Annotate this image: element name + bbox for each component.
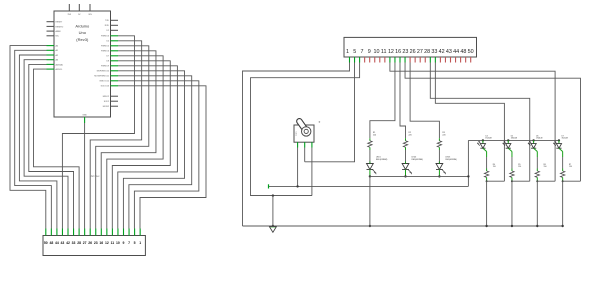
wire R1 to LED1	[369, 150, 371, 163]
pin stub 13 of J2	[409, 57, 411, 63]
resistor R4	[484, 171, 488, 177]
wire D4 to J1	[90, 41, 141, 229]
pin stub 12 of J2	[404, 57, 406, 63]
svg-text:PWM D6: PWM D6	[101, 51, 110, 53]
pin RV1 2	[304, 142, 306, 147]
junction D7 on top rail	[558, 139, 560, 141]
wire cells top rail	[468, 139, 559, 141]
svg-text:1N4148: 1N4148	[561, 138, 567, 140]
pin RV1 1	[297, 142, 299, 147]
wire pot pin3 to loop	[251, 195, 312, 197]
wire R7 to feed	[563, 180, 581, 182]
node rail 186 end tick	[268, 184, 270, 188]
junction rail drop on bus	[369, 225, 371, 227]
pin stub 7 of J2	[379, 57, 381, 63]
resistor R3	[437, 141, 441, 148]
connector J1 body	[43, 236, 145, 256]
IC U1 Arduino Uno (Rev3) body	[54, 11, 111, 117]
wire R6 to feed	[537, 180, 555, 182]
junction D5 on top rail	[507, 139, 509, 141]
wire LED3 leads	[438, 162, 440, 164]
node rail 186 wire	[269, 185, 469, 187]
junction R5 node	[511, 180, 513, 182]
svg-text:1N4148: 1N4148	[536, 138, 542, 140]
wire LED2 leads	[405, 162, 407, 164]
wire R4 to feed	[487, 180, 505, 182]
svg-text:16: 16	[395, 49, 401, 55]
junction LED2 on rail	[404, 175, 406, 177]
pin 11 of J1	[111, 229, 113, 236]
wire A3 to J1	[24, 60, 68, 229]
wire D5 to J1	[96, 46, 149, 229]
pin D4	[111, 40, 119, 42]
svg-text:Mult Stec: Mult Stec	[90, 175, 100, 178]
svg-text:50: 50	[44, 241, 48, 245]
svg-text:12: 12	[105, 241, 109, 245]
pin MISO2	[111, 95, 119, 97]
pin 44 of J1	[56, 229, 58, 236]
wire D6 anode stub	[533, 140, 535, 143]
pin 7 of J1	[128, 229, 130, 236]
pin 28 of J1	[78, 229, 80, 236]
pin 48 of J1	[50, 229, 52, 236]
svg-text:5: 5	[353, 49, 356, 55]
svg-text:48: 48	[49, 241, 53, 245]
pin RXD	[111, 24, 119, 26]
junction cell4 on bus	[561, 225, 563, 227]
svg-text:RESET2: RESET2	[56, 26, 65, 28]
wire J2 pin44 to D4 cell	[435, 63, 504, 182]
pin stub 18 of J2	[434, 57, 436, 63]
pin stub 21 of J2	[450, 57, 452, 63]
svg-text:MISO2: MISO2	[103, 96, 110, 98]
pin stub 1 of J2	[349, 57, 351, 63]
svg-text:150: 150	[518, 166, 521, 168]
svg-text:SCK D13: SCK D13	[101, 86, 110, 88]
wire R5 to feed	[512, 180, 530, 182]
pin 26 of J1	[89, 229, 91, 236]
pin RESET2	[47, 25, 55, 27]
svg-text:11: 11	[111, 241, 115, 245]
resistor R2	[403, 141, 407, 148]
pin 42 of J1	[67, 229, 69, 236]
junction ground on bus	[272, 225, 274, 227]
junction R7 node	[562, 180, 564, 182]
wire R7 to ground bus	[562, 181, 564, 226]
pin D8	[111, 60, 119, 62]
resistor R3 leads	[438, 138, 440, 141]
ground symbol	[270, 226, 275, 228]
svg-text:12: 12	[388, 49, 394, 55]
pin SCK D13	[111, 85, 119, 87]
wire R3 to LED3	[438, 150, 440, 163]
resistor R1	[368, 141, 372, 148]
junction RV1 pin1 on rail 186	[296, 185, 298, 187]
pin 9 of J1	[123, 229, 125, 236]
wire ground drop	[272, 196, 274, 226]
pin stub 23 of J2	[460, 57, 462, 63]
svg-text:44: 44	[55, 241, 59, 245]
wire A4 to J1	[29, 64, 74, 228]
svg-text:1N4148: 1N4148	[485, 138, 491, 140]
wire D5 anode stub	[507, 140, 509, 143]
pin PWM D9	[111, 65, 119, 67]
svg-text:1: 1	[139, 241, 141, 245]
wire R4 to ground bus	[486, 181, 488, 226]
pin GND	[84, 117, 86, 123]
wire D12 to J1	[118, 81, 199, 229]
potentiometer RV1 shaft	[302, 127, 311, 136]
pin A1	[47, 49, 55, 51]
resistor R7	[560, 171, 564, 177]
pin 33 of J1	[73, 229, 75, 236]
pin A2	[47, 54, 55, 56]
svg-text:5: 5	[134, 241, 136, 245]
svg-text:33: 33	[72, 241, 76, 245]
pin stub 17 of J2	[429, 57, 431, 63]
pin MOSI/PWM D11	[111, 75, 119, 77]
pin 27 of J1	[84, 229, 86, 236]
wire R5 to ground bus	[511, 181, 513, 226]
pin A0	[47, 45, 55, 47]
pin RESET	[47, 21, 55, 23]
pin A4	[47, 63, 55, 65]
pin stub 24 of J2	[465, 57, 467, 63]
diode D5	[506, 144, 511, 149]
pin A3	[47, 59, 55, 61]
wire D8 to J1	[112, 61, 170, 229]
svg-text:N/C: N/C	[56, 36, 60, 38]
wire LED1 leads	[369, 162, 371, 164]
svg-text:RED(633NM): RED(633NM)	[412, 159, 424, 161]
svg-text:1N4148: 1N4148	[511, 138, 517, 140]
pin N/C	[47, 35, 55, 37]
svg-text:27: 27	[83, 241, 87, 245]
pin 5V	[78, 4, 80, 11]
wire ground bus	[243, 225, 563, 227]
svg-text:POT1: POT1	[296, 132, 298, 136]
svg-text:7: 7	[360, 49, 363, 55]
junction cell2 on bus	[511, 225, 513, 227]
wire R6 to ground bus	[536, 181, 538, 226]
pin stub 3 of J2	[359, 57, 361, 63]
junction R4 node	[486, 180, 488, 182]
svg-text:TXD: TXD	[105, 20, 110, 22]
wire D7 to J1	[107, 56, 163, 229]
junction ground tap	[272, 194, 274, 196]
pin AREF	[47, 30, 55, 32]
pin SCK2	[111, 100, 119, 102]
svg-text:9: 9	[123, 241, 125, 245]
wire J2 pin1 to ground bus	[243, 63, 350, 227]
pin stub 9 of J2	[389, 57, 391, 63]
pin 50 of J1	[45, 229, 47, 236]
wire J2 pin43 to D5 cell	[430, 63, 529, 182]
wire RV1 pin1 to node rail186	[297, 148, 299, 187]
wire J2 pin16 to R3 branch	[410, 63, 439, 139]
pin PWM D3	[111, 35, 119, 37]
wire A2 to J1	[19, 55, 57, 229]
svg-text:RXD: RXD	[105, 25, 110, 27]
wire D11 to J1	[118, 76, 192, 229]
pin SS/PWM D10	[111, 70, 119, 72]
svg-text:27: 27	[417, 49, 423, 55]
wire R4 bottom	[486, 177, 488, 181]
junction LED1 on rail	[369, 175, 371, 177]
svg-text:GND: GND	[82, 115, 87, 117]
svg-text:1: 1	[346, 49, 349, 55]
resistor R6	[535, 171, 539, 177]
pin stub 8 of J2	[384, 57, 386, 63]
wire D5 to R5	[508, 148, 512, 151]
wire J2 pin10 to R1 branch	[370, 63, 395, 139]
pin PWM D6	[111, 50, 119, 52]
svg-text:23: 23	[402, 49, 408, 55]
svg-text:42: 42	[439, 49, 445, 55]
pin 5 of J1	[134, 229, 136, 236]
svg-text:MOSI/PWM D11: MOSI/PWM D11	[94, 76, 110, 78]
connector J2 header body	[344, 37, 477, 57]
svg-text:220: 220	[409, 135, 412, 137]
LED LED3	[436, 164, 443, 170]
resistor R5	[510, 171, 514, 177]
junction R6 node	[536, 180, 538, 182]
junction D6 on top rail	[532, 139, 534, 141]
svg-text:VIN: VIN	[88, 14, 92, 16]
label RV1 marker	[319, 121, 321, 123]
diode D6	[531, 144, 536, 149]
svg-text:PWM D5: PWM D5	[101, 46, 110, 48]
wire RV1 pin2 stub	[304, 148, 306, 162]
svg-text:16: 16	[99, 241, 103, 245]
pin D2	[111, 29, 119, 31]
svg-text:10: 10	[116, 241, 120, 245]
svg-text:150: 150	[544, 166, 547, 168]
wire J2 pin11 to R2 branch	[400, 63, 406, 139]
junction cell3 on bus	[536, 225, 538, 227]
svg-text:MOSI2: MOSI2	[103, 106, 110, 108]
svg-text:10: 10	[373, 49, 379, 55]
pin stub 6 of J2	[374, 57, 376, 63]
pin PWM D5	[111, 45, 119, 47]
wire A1 to J1	[15, 50, 52, 228]
wire A5 to J1	[34, 69, 80, 228]
wire D7 anode stub	[558, 140, 560, 143]
svg-text:Uno: Uno	[79, 30, 87, 35]
svg-text:26: 26	[410, 49, 416, 55]
resistor R2 leads	[405, 138, 407, 141]
pin 23 of J1	[95, 229, 97, 236]
wire LED common rail	[370, 175, 469, 177]
svg-text:42: 42	[66, 241, 70, 245]
wire D4 anode stub	[482, 140, 484, 143]
LED LED2	[402, 164, 409, 170]
wire rail to ground bus drop	[369, 176, 371, 226]
svg-text:220: 220	[373, 135, 376, 137]
wire J2 pin7 to RV1 pin3	[251, 63, 360, 196]
junction D4 on top rail	[482, 139, 484, 141]
pin MISO D12	[111, 80, 119, 82]
pin TXD	[111, 19, 119, 21]
pin 3V3	[68, 4, 70, 11]
svg-text:28: 28	[424, 49, 430, 55]
wire J2 pin5 to RV1 wiper	[305, 63, 355, 162]
potentiometer RV1 lever	[296, 117, 309, 132]
diode D7	[556, 144, 561, 149]
pin stub 20 of J2	[444, 57, 446, 63]
pin stub 5 of J2	[369, 57, 371, 63]
wire R7 bottom	[562, 177, 564, 181]
junction cell1 on bus	[485, 225, 487, 227]
svg-text:7: 7	[128, 241, 130, 245]
svg-text:A4/SDA: A4/SDA	[56, 63, 64, 66]
svg-text:48: 48	[460, 49, 466, 55]
diode D4	[480, 144, 485, 149]
pin stub 10 of J2	[394, 57, 396, 63]
svg-text:44: 44	[453, 49, 459, 55]
wire D7 to R7	[559, 148, 563, 151]
svg-text:SS/PWM D10: SS/PWM D10	[97, 71, 110, 73]
junction rail176 on 468	[467, 175, 469, 177]
svg-text:SCK2: SCK2	[104, 101, 110, 103]
wire D6 to R6	[534, 148, 538, 151]
pin stub 11 of J2	[399, 57, 401, 63]
svg-text:MISO D12: MISO D12	[100, 81, 110, 83]
pin stub 14 of J2	[414, 57, 416, 63]
svg-text:23: 23	[94, 241, 98, 245]
svg-text:(Rev3): (Rev3)	[76, 37, 89, 42]
svg-text:43: 43	[446, 49, 452, 55]
wire vertical 468 linking rails	[467, 140, 469, 186]
pin D7	[111, 55, 119, 57]
pin VIN	[89, 4, 91, 11]
svg-text:RESET: RESET	[56, 22, 63, 24]
svg-text:11: 11	[381, 49, 387, 55]
pin stub 19 of J2	[439, 57, 441, 63]
pin stub 15 of J2	[419, 57, 421, 63]
pin 16 of J1	[100, 229, 102, 236]
pin MOSI2	[111, 105, 119, 107]
junction LED3 on rail	[438, 175, 440, 177]
wire D6 to J1	[101, 51, 156, 229]
svg-text:50: 50	[468, 49, 474, 55]
pin RV1 3	[311, 142, 313, 147]
pin stub 25 of J2	[470, 57, 472, 63]
svg-text:220: 220	[442, 135, 445, 137]
wire J2 pin12 to D7 cell	[405, 63, 580, 182]
svg-text:Arduino: Arduino	[75, 24, 90, 29]
pin 1 of J1	[139, 229, 141, 236]
LED LED1	[367, 164, 374, 170]
pin 43 of J1	[61, 229, 63, 236]
potentiometer RV1 body	[294, 125, 314, 142]
pin stub 2 of J2	[354, 57, 356, 63]
svg-text:PWM D9: PWM D9	[101, 66, 110, 68]
wire J2 pin9 to D6 cell	[390, 63, 555, 182]
svg-text:RED(633NM): RED(633NM)	[445, 159, 457, 161]
wire D10 to J1	[118, 71, 185, 229]
wire GND to J1	[84, 123, 86, 229]
wire R5 bottom	[511, 177, 513, 181]
svg-text:PWM D3: PWM D3	[101, 36, 110, 38]
wire R2 to LED2	[405, 150, 407, 163]
wire RV1 pin3 down	[311, 148, 313, 196]
pin stub 16 of J2	[424, 57, 426, 63]
pin stub 22 of J2	[455, 57, 457, 63]
resistor R1 leads	[369, 138, 371, 141]
wire A0 to J1	[10, 46, 47, 229]
svg-text:AREF: AREF	[56, 30, 62, 33]
svg-text:150: 150	[493, 166, 496, 168]
svg-text:28: 28	[77, 241, 81, 245]
svg-text:26: 26	[88, 241, 92, 245]
wire R6 bottom	[536, 177, 538, 181]
wire D4 to R4	[483, 148, 487, 151]
svg-text:RED(633NM): RED(633NM)	[376, 159, 388, 161]
svg-text:9: 9	[368, 49, 371, 55]
wire D13 to J1	[118, 86, 206, 229]
pin A5	[47, 68, 55, 70]
svg-text:150: 150	[569, 166, 572, 168]
wire D9 to J1	[118, 66, 178, 229]
svg-text:A5/SCL: A5/SCL	[56, 68, 64, 71]
pin stub 4 of J2	[364, 57, 366, 63]
wire D3 to J1	[62, 36, 134, 229]
pin 10 of J1	[117, 229, 119, 236]
svg-text:33: 33	[431, 49, 437, 55]
pin 12 of J1	[106, 229, 108, 236]
svg-text:43: 43	[61, 241, 65, 245]
